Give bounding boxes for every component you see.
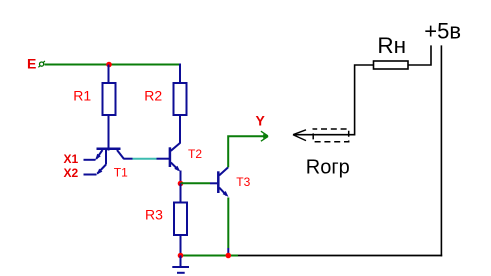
- transistor T1: [96, 149, 132, 174]
- svg-text:X2: X2: [64, 166, 79, 180]
- junction dot T2 emitter: [178, 181, 184, 187]
- svg-text:R2: R2: [144, 87, 162, 103]
- wire T3 base pin: [210, 182, 217, 184]
- resistor R3: [174, 203, 187, 236]
- svg-text:R1: R1: [73, 87, 91, 103]
- wire junction to T3 base (green): [181, 182, 211, 184]
- T2 emitter arrowhead: [174, 166, 180, 172]
- wire R3 top pin: [180, 184, 182, 204]
- wire R2 top pin: [179, 64, 181, 84]
- T1 emitter arrowhead X1: [95, 154, 100, 160]
- wire Rn right to +5v: [408, 45, 431, 65]
- wire R2 bottom pin: [179, 115, 181, 144]
- resistor R1: [103, 83, 116, 115]
- svg-text:T3: T3: [236, 175, 250, 189]
- svg-text:T1: T1: [114, 166, 128, 180]
- wire T1 collector to T2 base (teal segment): [133, 158, 157, 160]
- wire T3 collector up (green): [228, 136, 264, 167]
- T3 emitter arrowhead: [223, 191, 229, 197]
- wire X1 stub: [84, 159, 96, 161]
- arrowhead Rogr: [293, 130, 306, 141]
- bottom rail black: [238, 255, 442, 257]
- svg-text:Rогр: Rогр: [306, 157, 350, 179]
- T1 emitter arrowhead X2: [97, 169, 103, 175]
- svg-text:+5в: +5в: [424, 19, 461, 44]
- transistor T2: [170, 143, 181, 184]
- junction dot top: [106, 62, 112, 68]
- resistor Rogr dashed body: [313, 129, 349, 142]
- ground symbol: [172, 256, 189, 273]
- svg-text:T2: T2: [188, 147, 202, 161]
- wire T3 emitter down (green): [227, 198, 229, 249]
- svg-text:Y: Y: [256, 113, 266, 129]
- resistor Rn: [374, 61, 409, 69]
- wire R1 top pin: [108, 65, 110, 84]
- wire navy stub above junction: [227, 248, 229, 253]
- svg-text:R3: R3: [145, 207, 163, 223]
- svg-text:Rн: Rн: [377, 33, 406, 58]
- transistor T3: [218, 167, 228, 195]
- svg-text:X1: X1: [64, 152, 79, 166]
- junction dot T3 emitter rail: [226, 253, 232, 259]
- wire +5v rail: [440, 45, 442, 256]
- wire X2 stub: [84, 174, 97, 176]
- output arrow Y: [261, 131, 268, 141]
- wire Rn left down to Rogr: [294, 65, 374, 135]
- junction dot ground: [178, 253, 184, 259]
- terminal E: [38, 61, 45, 67]
- wire E top rail: [45, 64, 181, 66]
- resistor R2: [174, 83, 187, 115]
- wire R3 bottom pin: [180, 235, 182, 256]
- wire R1 bottom pin: [108, 115, 110, 151]
- wire T2 base pin: [157, 158, 170, 160]
- bottom rail green: [181, 255, 239, 257]
- svg-text:E: E: [27, 56, 36, 72]
